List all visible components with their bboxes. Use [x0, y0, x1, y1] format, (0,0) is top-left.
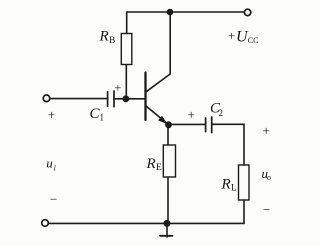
svg-text:E: E [156, 163, 162, 173]
svg-text:B: B [109, 36, 115, 46]
wire emitter down [167, 125, 169, 145]
svg-text:L: L [231, 183, 237, 193]
node emitter [165, 121, 172, 128]
terminal input [43, 95, 50, 102]
svg-text:2: 2 [219, 108, 224, 118]
svg-text:−: − [263, 202, 270, 217]
transistor Q1 [146, 73, 171, 125]
wire input [50, 98, 108, 100]
terminal +Ucc [244, 9, 250, 15]
ground [160, 225, 173, 237]
svg-text:CC: CC [248, 36, 259, 45]
wire bottom rail [48, 222, 244, 224]
terminal bottom left [42, 220, 49, 227]
svg-text:u: u [46, 155, 53, 170]
node collector top [167, 9, 174, 16]
node base junction [122, 95, 129, 102]
svg-text:+: + [228, 28, 235, 43]
node ground junction [164, 220, 171, 227]
wire collector [169, 12, 171, 74]
svg-text:+: + [188, 107, 195, 122]
wire C1 to base node [114, 98, 126, 100]
resistor RE [163, 145, 175, 177]
wire emitter to C2 [169, 123, 206, 125]
svg-text:+: + [48, 107, 55, 122]
svg-text:R: R [146, 156, 156, 172]
svg-text:o: o [267, 173, 271, 182]
wire RE bottom [167, 177, 169, 223]
wire C2 to RL [212, 124, 244, 165]
wire RL bottom [243, 200, 245, 223]
capacitor C2 [206, 117, 212, 133]
svg-text:+: + [263, 123, 270, 138]
svg-text:1: 1 [100, 113, 105, 123]
wire RB top [126, 12, 128, 34]
wire top rail [127, 11, 245, 13]
svg-text:R: R [221, 177, 231, 193]
svg-text:R: R [99, 29, 109, 45]
resistor RL [239, 165, 250, 200]
resistor RB [121, 34, 132, 65]
svg-text:i: i [54, 164, 56, 173]
svg-text:−: − [50, 192, 57, 207]
wire RB bottom [125, 65, 127, 100]
svg-text:+: + [115, 81, 122, 95]
capacitor C1 [108, 91, 114, 107]
wire base [126, 98, 145, 100]
